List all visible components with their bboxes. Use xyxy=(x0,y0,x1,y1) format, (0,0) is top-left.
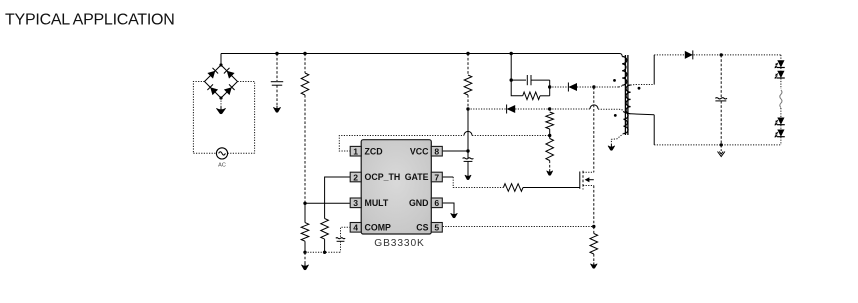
AC source V1 xyxy=(216,148,227,159)
wire bridge right to loop xyxy=(238,82,255,154)
wire pin7 down xyxy=(453,177,503,188)
pin 2 box xyxy=(350,172,361,182)
bridge rectifier BR1 frame xyxy=(205,65,238,98)
svg-text:5: 5 xyxy=(434,223,439,233)
wire snubber right vertical xyxy=(549,80,551,96)
svg-text:AC: AC xyxy=(218,163,226,169)
bridge diode D lower-left xyxy=(210,87,218,95)
wire pin1 to ZCD line xyxy=(339,136,464,152)
diode D4 output xyxy=(685,51,693,59)
wire R8 to ground xyxy=(593,254,595,263)
svg-text:8: 8 xyxy=(434,147,439,157)
svg-text:MULT: MULT xyxy=(365,198,389,208)
LED string continuation squiggle xyxy=(780,90,782,108)
wire source node to R8 xyxy=(593,227,595,234)
wire LED1-2 xyxy=(780,68,782,71)
resistor R1 xyxy=(301,73,309,95)
wire snubber cap right lead xyxy=(531,79,550,81)
wire bridge top to rail xyxy=(220,54,222,66)
svg-text:VCC: VCC xyxy=(410,146,429,156)
wire output top right xyxy=(694,54,781,56)
wire R5 to ZCD node xyxy=(549,129,551,136)
wire pin4 to C2 xyxy=(341,227,351,238)
wire R3 to bottom node xyxy=(324,239,326,252)
wire C5 top lead xyxy=(720,55,722,97)
wire pin6 stub xyxy=(443,203,454,213)
node snubber left xyxy=(510,78,513,81)
resistor R5 xyxy=(546,112,554,129)
pin 5 box xyxy=(431,223,442,233)
node output cap bottom xyxy=(720,143,723,146)
ground below bridge xyxy=(217,108,226,113)
node bridge top vertex xyxy=(219,63,222,66)
ground below C1 xyxy=(274,107,281,112)
diode D2 xyxy=(507,105,516,113)
transformer primary winding xyxy=(622,57,627,86)
svg-text:OCP_TH: OCP_TH xyxy=(365,172,401,182)
node VCC pin junction xyxy=(466,149,469,152)
wire rail corner into transformer xyxy=(615,54,622,57)
wire secondary top riser xyxy=(653,55,655,85)
svg-text:6: 6 xyxy=(434,198,439,208)
node CS junction xyxy=(592,225,595,228)
node rail-snubber xyxy=(510,52,513,55)
wire bottom node to ground xyxy=(304,252,306,263)
LED D6 xyxy=(777,71,784,78)
node rail-R1 xyxy=(303,52,306,55)
wire C2 to bottom node xyxy=(340,241,342,252)
diode D3 xyxy=(568,83,577,91)
wire R4 top lead xyxy=(467,54,469,76)
wire secondary bottom xyxy=(631,114,655,115)
bridge diode D upper-right xyxy=(227,71,235,79)
bridge diode D lower-right xyxy=(224,87,232,95)
wire snubber to D3 xyxy=(550,86,569,88)
node MULT junction xyxy=(303,202,306,205)
wire gate line xyxy=(523,187,580,189)
mosfet Q1 channel xyxy=(582,171,584,190)
node snubber mid xyxy=(548,85,551,88)
svg-text:1: 1 xyxy=(353,147,358,157)
phase dot secondary xyxy=(638,87,641,90)
resistor R2 xyxy=(301,223,309,242)
wire secondary bottom riser xyxy=(653,115,655,145)
wire aux bottom xyxy=(611,134,623,146)
wire D2 to divider node xyxy=(515,108,550,110)
svg-text:2: 2 xyxy=(353,172,358,182)
wire primary bottom join xyxy=(619,85,623,87)
mosfet Q1 gate bar xyxy=(579,172,581,189)
wire ZCD line to divider xyxy=(472,135,550,137)
wire R1 to MULT node xyxy=(304,95,306,203)
node bridge bottom vertex xyxy=(219,96,222,99)
wire R2 to bottom node xyxy=(304,241,306,252)
wire snubber drop xyxy=(510,54,512,81)
ground below divider xyxy=(302,265,309,270)
wire D3 to drain node xyxy=(577,86,594,88)
op-amp U1 GB3330K body xyxy=(361,140,431,234)
svg-text:ZCD: ZCD xyxy=(365,146,383,156)
wire pin7 stub xyxy=(443,176,454,178)
wire R4 to VCC node xyxy=(467,95,469,109)
ground below aux xyxy=(608,146,615,150)
LED D7 xyxy=(777,118,784,125)
wire source to CS xyxy=(593,186,595,227)
mosfet Q1 body diode arrow xyxy=(589,179,594,181)
svg-text:4: 4 xyxy=(353,223,358,233)
svg-text:GATE: GATE xyxy=(405,172,429,182)
LED D8 xyxy=(777,130,784,137)
transformer core xyxy=(624,55,626,135)
ground below C3 xyxy=(465,175,471,179)
node drain junction xyxy=(592,85,595,88)
resistor R8 sense xyxy=(590,234,598,255)
pin 8 box xyxy=(431,146,442,156)
resistor R3 xyxy=(321,219,329,240)
wire pin8 to VCC node xyxy=(443,150,468,152)
wire bridge bottom to ground xyxy=(220,98,222,107)
bridge diode D upper-left xyxy=(207,71,215,79)
pin 3 box xyxy=(350,198,361,208)
pin 7 box xyxy=(431,172,442,182)
svg-text:CS: CS xyxy=(416,223,428,233)
wire R1 top lead xyxy=(304,54,306,74)
wire hop to aux winding xyxy=(598,109,623,112)
wire output bottom rail xyxy=(654,144,781,146)
resistor R7 xyxy=(523,92,540,100)
wire C3 top lead xyxy=(467,151,469,158)
wire snubber lower left xyxy=(511,80,523,96)
wire R6 to ground xyxy=(549,161,551,171)
svg-text:3: 3 xyxy=(353,198,358,208)
svg-text:GND: GND xyxy=(409,198,429,208)
node aux-VCC junction xyxy=(466,107,469,110)
svg-text:TYPICAL APPLICATION: TYPICAL APPLICATION xyxy=(5,12,175,29)
wire loop bottom left xyxy=(193,152,216,154)
pin 1 box xyxy=(350,146,361,156)
mosfet Q1 source stub xyxy=(583,185,594,187)
pin 4 box xyxy=(350,223,361,233)
capacitor C3 xyxy=(463,158,474,159)
wire CS line xyxy=(443,226,594,228)
node divider bottom xyxy=(303,251,306,254)
wire MULT node to pin 3 xyxy=(305,202,351,204)
wire C3 bottom lead xyxy=(467,161,469,174)
wire LED bottom xyxy=(780,137,782,145)
wire LED3-4 xyxy=(780,125,782,130)
svg-text:7: 7 xyxy=(434,172,439,182)
wire snubber lower right xyxy=(540,95,550,97)
node R3 bottom xyxy=(323,251,326,254)
wire C5 bottom lead xyxy=(720,101,722,145)
wire bottom node link xyxy=(305,251,341,253)
wire secondary top xyxy=(631,84,655,87)
node aux divider top xyxy=(548,107,551,110)
wire C1 bottom lead xyxy=(276,85,278,106)
wire to hop xyxy=(550,108,590,110)
capacitor C2 xyxy=(336,238,345,239)
wire ZCD node to R6 xyxy=(549,136,551,139)
wire output top left xyxy=(654,54,685,56)
resistor R9 gate xyxy=(503,184,523,192)
svg-text:GB3330K: GB3330K xyxy=(374,238,424,249)
resistor R6 xyxy=(546,139,554,161)
node ZCD junction xyxy=(548,134,551,137)
wire MULT node to R2 xyxy=(304,203,306,222)
wire pin2 to R3 xyxy=(325,177,351,219)
wire squiggle-LED3 xyxy=(780,108,782,118)
pin 6 box xyxy=(431,198,442,208)
wire C1 top lead xyxy=(276,54,278,82)
capacitor C4 xyxy=(526,75,528,85)
wire top rail xyxy=(221,53,615,55)
wire snubber cap left lead xyxy=(511,79,526,81)
transformer secondary winding xyxy=(626,85,631,114)
wire LED2-squiggle xyxy=(780,78,782,89)
svg-text:COMP: COMP xyxy=(365,223,392,233)
wire bridge left to loop xyxy=(193,82,204,154)
phase dot primary xyxy=(613,79,616,82)
ground below R8 xyxy=(591,264,598,268)
node rail-R4 xyxy=(466,52,469,55)
ground below R6 xyxy=(547,171,553,175)
wire drain xyxy=(593,87,595,172)
node rail-C1 xyxy=(275,52,278,55)
wire hop aux over drain xyxy=(590,105,598,109)
wire C5 ground lead xyxy=(720,145,722,151)
LED D5 xyxy=(777,60,784,67)
ground below pin6 xyxy=(451,213,458,217)
capacitor C5 output xyxy=(715,98,727,99)
ground output xyxy=(718,152,725,157)
phase dot aux xyxy=(614,114,617,117)
wire VCC node to D2 xyxy=(468,108,507,110)
node output cap top xyxy=(720,53,723,56)
wire drain node to primary xyxy=(594,86,619,88)
wire loop bottom right xyxy=(228,152,255,154)
wire VCC vertical xyxy=(467,109,469,151)
wire hop ZCD over VCC xyxy=(464,131,472,135)
mosfet Q1 drain stub xyxy=(583,171,594,173)
capacitor C1 xyxy=(271,81,283,83)
wire LED top xyxy=(780,55,782,60)
resistor R4 xyxy=(464,75,472,95)
transformer aux winding xyxy=(624,112,629,134)
